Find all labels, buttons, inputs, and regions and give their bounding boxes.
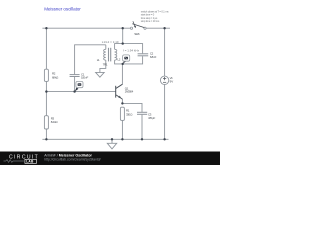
- wire tank top: [115, 44, 143, 54]
- resistor R2: [44, 69, 59, 81]
- svg-text:68 kΩ: 68 kΩ: [52, 75, 59, 79]
- node tank top: [122, 42, 124, 44]
- logo waveform: [4, 160, 24, 163]
- node C3 bottom: [141, 138, 143, 140]
- node ground rail: [111, 138, 113, 140]
- resistor R3: [44, 116, 58, 129]
- probe flag A (base): [75, 81, 83, 91]
- transformer secondary L2: [115, 49, 117, 60]
- node V1 top: [163, 27, 165, 29]
- svg-text:SW1: SW1: [134, 32, 140, 36]
- svg-text:9 V: 9 V: [170, 79, 174, 83]
- svg-text:TR1: TR1: [103, 62, 108, 66]
- wire collector: [116, 64, 122, 89]
- svg-text:LAB: LAB: [26, 160, 34, 164]
- node emitter: [121, 102, 123, 104]
- svg-text:stop time = 10 ms: stop time = 10 ms: [141, 19, 160, 23]
- annotation switch timing: [141, 9, 169, 23]
- svg-text:L1: L1: [97, 58, 100, 62]
- wire emitter row: [122, 103, 142, 112]
- svg-text:100 nF: 100 nF: [81, 76, 88, 80]
- node base divider: [45, 90, 47, 92]
- transformer TR1 primary L1: [104, 49, 106, 60]
- wire left rail lower: [45, 129, 47, 139]
- wire left rail upper: [45, 28, 47, 69]
- svg-text:L2: L2: [118, 57, 121, 61]
- logo LAB: [25, 159, 37, 163]
- transistor Q1: [116, 84, 123, 99]
- node R1 bottom: [121, 138, 123, 140]
- wire C1 lower lead: [74, 77, 76, 92]
- footer bar: [0, 152, 220, 166]
- ground (under L1): [96, 72, 105, 77]
- svg-text:330 Ω: 330 Ω: [126, 113, 133, 117]
- switch SW1: [130, 21, 146, 36]
- capacitor C3: [137, 112, 156, 120]
- node V1 bottom: [163, 138, 165, 140]
- svg-text:2N3904: 2N3904: [125, 90, 134, 94]
- ground (bottom rail): [107, 143, 116, 149]
- wire ground2 lead: [111, 139, 113, 143]
- wire top rail left segment: [42, 27, 130, 29]
- node top-left: [45, 27, 47, 29]
- wire L2 top to tank junction: [122, 28, 124, 43]
- wire R1 bottom lead: [121, 120, 123, 139]
- wire bottom rail: [42, 138, 168, 140]
- node tank bottom / collector: [122, 63, 124, 65]
- svg-text:http://circuitlab.com/c/eamt/s: http://circuitlab.com/c/eamt/syc9lavtd/: [44, 157, 100, 161]
- wire tank bottom: [115, 56, 143, 64]
- wire C1 loop top: [75, 45, 106, 74]
- svg-text:470 µF: 470 µF: [148, 116, 156, 120]
- resistor R1: [120, 107, 133, 120]
- wire base row: [46, 91, 115, 93]
- transistor Q1 emitter arrow: [118, 96, 121, 98]
- wire left rail middle: [45, 81, 47, 115]
- node R3 bottom: [45, 138, 47, 140]
- capacitor C2: [138, 52, 157, 59]
- svg-text:L1/L2 = 1:10: L1/L2 = 1:10: [102, 40, 119, 44]
- wire V1 lower: [164, 85, 166, 140]
- svg-text:8.2 kΩ: 8.2 kΩ: [51, 120, 59, 124]
- capacitor C1: [70, 72, 89, 79]
- wire V1 upper: [164, 28, 166, 76]
- junction dots: [45, 27, 166, 141]
- voltage source V1: [160, 76, 173, 85]
- node C1 base: [73, 90, 75, 92]
- svg-text:Meissner oscillator: Meissner oscillator: [44, 7, 81, 12]
- wire L1 bottom to ground: [100, 60, 106, 72]
- transformer core: [108, 48, 110, 62]
- svg-text:6.8 nF: 6.8 nF: [150, 55, 157, 59]
- svg-text:f = 1.94 kHz: f = 1.94 kHz: [123, 49, 140, 53]
- wire C3 bottom lead: [141, 115, 143, 140]
- wire top rail right segment: [146, 27, 170, 29]
- probe flag B (collector): [123, 55, 130, 64]
- node tank feed top: [122, 27, 124, 29]
- wire L1 top lead: [105, 45, 107, 50]
- wire emitter vertical: [121, 99, 123, 103]
